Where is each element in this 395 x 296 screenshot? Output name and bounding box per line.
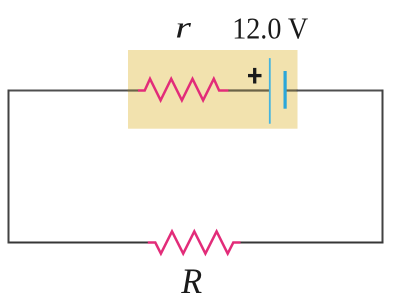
wire: battery negative plate to box edge — [285, 89, 298, 91]
battery negative plate (short) — [284, 71, 287, 109]
svg-text:r: r — [175, 10, 192, 44]
label R — [180, 261, 202, 296]
battery body (shaded box) — [128, 50, 298, 129]
svg-text:12.0 V: 12.0 V — [232, 12, 309, 46]
wire: resistor r to battery positive plate — [228, 89, 270, 91]
wire: into box to resistor r — [128, 89, 139, 91]
wire: left vertical — [8, 91, 10, 243]
resistor r (internal resistance, zigzag) — [138, 79, 228, 101]
label 12.0 V — [232, 12, 309, 46]
wire: box edge to top right corner — [298, 90, 383, 92]
resistor R (load, zigzag) — [148, 231, 241, 253]
battery positive plate (long) — [269, 58, 271, 124]
label r — [175, 10, 192, 44]
wire: bottom left horizontal — [9, 242, 148, 244]
wire: bottom right horizontal — [241, 242, 383, 244]
wire: right vertical — [382, 91, 384, 243]
polarity + sign — [248, 68, 262, 84]
svg-text:R: R — [180, 261, 202, 296]
wire: top left horizontal — [9, 90, 129, 92]
